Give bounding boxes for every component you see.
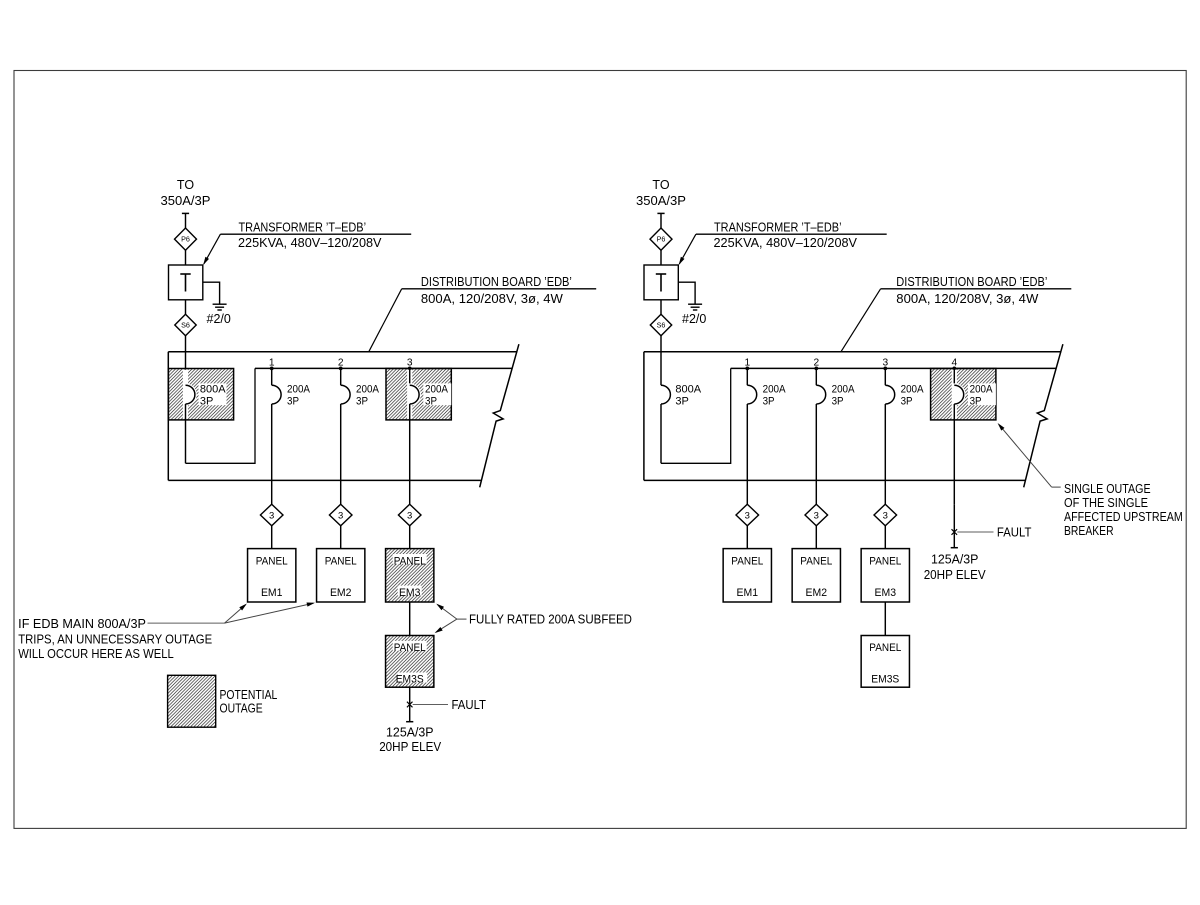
- wire breaker 1 upper (left): [271, 368, 273, 385]
- node 2 tap dot (right): [814, 367, 818, 371]
- arrow tick elevator feeder (left): [406, 721, 413, 723]
- panel EM2 (left): [317, 549, 365, 602]
- node 3 tap dot (left): [408, 367, 412, 371]
- wire breaker 2 upper (left): [340, 368, 342, 385]
- svg-text:PANEL: PANEL: [325, 555, 357, 567]
- switch S6 (right): [650, 314, 671, 335]
- svg-text:125A/3P: 125A/3P: [931, 552, 979, 566]
- svg-text:200A: 200A: [425, 383, 449, 395]
- svg-text:AFFECTED UPSTREAM: AFFECTED UPSTREAM: [1064, 510, 1183, 524]
- fault leader (right): [957, 531, 993, 533]
- svg-text:EM2: EM2: [806, 587, 828, 599]
- transformer T1 box (left): [169, 265, 203, 300]
- potential-outage hatched box main breaker 800A (left): [168, 369, 233, 420]
- wire breaker 4 to elevator feeder (right): [953, 504, 955, 548]
- wire breaker 4 lower (right): [953, 404, 955, 504]
- switch S6 (left): [175, 314, 196, 335]
- meter diamond 3 (right): [736, 504, 759, 526]
- transformer T symbol (left): [180, 273, 190, 275]
- wire breaker 1 upper (right): [746, 368, 748, 385]
- svg-text:EM3S: EM3S: [871, 674, 899, 686]
- svg-text:FAULT: FAULT: [997, 526, 1032, 540]
- svg-text:TO: TO: [652, 178, 669, 192]
- distribution board label leader (right): [881, 288, 1072, 290]
- svg-text:2: 2: [338, 357, 344, 368]
- svg-text:225KVA, 480V–120/208V: 225KVA, 480V–120/208V: [238, 236, 382, 250]
- panel EM3 (left): [386, 549, 434, 602]
- svg-text:200A: 200A: [901, 383, 925, 395]
- svg-text:3P: 3P: [200, 395, 213, 407]
- svg-text:800A, 120/208V, 3ø, 4W: 800A, 120/208V, 3ø, 4W: [421, 292, 563, 306]
- svg-text:OF THE SINGLE: OF THE SINGLE: [1064, 496, 1148, 510]
- bus wire (right): [731, 367, 1056, 369]
- svg-text:200A: 200A: [763, 383, 787, 395]
- wire diamond to panel (right): [884, 526, 886, 549]
- svg-text:4: 4: [951, 357, 957, 368]
- wire breaker 2 lower (right): [815, 404, 817, 504]
- svg-text:IF EDB MAIN 800A/3P: IF EDB MAIN 800A/3P: [18, 617, 146, 631]
- wire EM3 to EM3S (left): [409, 602, 411, 636]
- svg-text:#2/0: #2/0: [207, 312, 231, 326]
- svg-text:S6: S6: [181, 321, 190, 330]
- panel EM1 (right): [723, 549, 771, 602]
- wire breaker 3 lower (right): [884, 404, 886, 504]
- svg-text:3P: 3P: [763, 395, 775, 407]
- svg-text:800A: 800A: [675, 383, 701, 395]
- panel EM3S (left): [386, 636, 434, 688]
- main breaker 800A/3P arc (left): [186, 385, 195, 404]
- wire diamond to panel (right): [815, 526, 817, 549]
- svg-text:OUTAGE: OUTAGE: [220, 702, 263, 716]
- main breaker 800A/3P arc (right): [661, 385, 670, 404]
- wire breaker 2 upper (right): [815, 368, 817, 385]
- svg-text:225KVA, 480V–120/208V: 225KVA, 480V–120/208V: [714, 236, 858, 250]
- svg-text:SINGLE OUTAGE: SINGLE OUTAGE: [1064, 482, 1151, 496]
- svg-text:20HP ELEV: 20HP ELEV: [924, 568, 987, 582]
- ground symbol (right): [688, 303, 702, 305]
- svg-text:PANEL: PANEL: [731, 555, 763, 567]
- continuation arrow to 350A/3P (right): [657, 212, 664, 214]
- wire: main breaker to bus L-path (right): [660, 404, 662, 463]
- svg-text:EM1: EM1: [261, 587, 283, 599]
- potential-outage hatched box breaker 4 (right): [931, 369, 996, 420]
- svg-text:PANEL: PANEL: [869, 555, 901, 567]
- svg-text:PANEL: PANEL: [869, 642, 901, 654]
- svg-text:3: 3: [407, 511, 412, 522]
- wire: incoming feeder (right): [660, 213, 662, 228]
- transformer label leader (left): [220, 233, 411, 235]
- svg-text:350A/3P: 350A/3P: [636, 194, 686, 208]
- svg-text:TRANSFORMER ’T–EDB’: TRANSFORMER ’T–EDB’: [239, 220, 367, 234]
- node 4 tap dot (right): [952, 367, 956, 371]
- svg-text:3: 3: [269, 511, 274, 522]
- ground conductor (right): [678, 282, 695, 304]
- svg-text:200A: 200A: [287, 383, 311, 395]
- svg-text:EM1: EM1: [737, 587, 759, 599]
- svg-text:200A: 200A: [832, 383, 856, 395]
- svg-text:PANEL: PANEL: [394, 555, 426, 567]
- svg-text:P6: P6: [657, 235, 666, 244]
- legend: potential outage hatched box: [168, 675, 216, 727]
- wire diamond to panel (right): [746, 526, 748, 549]
- potential-outage hatched box breaker 3 (left): [386, 369, 451, 420]
- board break line (left): [480, 344, 519, 487]
- svg-text:3: 3: [883, 511, 888, 522]
- continuation arrow to 350A/3P (left): [182, 212, 189, 214]
- fuse/switch P6 (right): [650, 228, 672, 250]
- wire breaker 3 lower (left): [409, 404, 411, 504]
- wire breaker 3 upper (right): [884, 368, 886, 385]
- board break line (right): [1024, 344, 1063, 487]
- breaker 4 200A/3P arc (right): [954, 385, 963, 404]
- breaker 2 200A/3P arc (right): [816, 385, 825, 404]
- svg-text:PANEL: PANEL: [800, 555, 832, 567]
- svg-text:EM2: EM2: [330, 587, 352, 599]
- svg-text:EM3: EM3: [399, 587, 421, 599]
- wire diamond to panel (left): [409, 526, 411, 549]
- wire breaker 2 lower (left): [340, 404, 342, 504]
- wire breaker 3 upper (left): [409, 368, 411, 385]
- svg-text:3: 3: [338, 511, 343, 522]
- breaker 3 200A/3P arc (left): [410, 385, 419, 404]
- svg-text:#2/0: #2/0: [682, 312, 706, 326]
- svg-text:EM3S: EM3S: [396, 674, 424, 686]
- svg-text:3P: 3P: [287, 395, 299, 407]
- panel EM2 (right): [792, 549, 840, 602]
- meter diamond 3 (left): [260, 504, 283, 526]
- breaker 2 200A/3P arc (left): [341, 385, 350, 404]
- svg-text:1: 1: [269, 357, 275, 368]
- svg-text:PANEL: PANEL: [256, 555, 288, 567]
- wire EM3 to EM3S (right): [884, 602, 886, 636]
- panel EM3S (right): [861, 636, 909, 688]
- node 1 tap dot (right): [745, 367, 749, 371]
- note leader line (left): [148, 622, 225, 624]
- meter diamond 3 (right): [805, 504, 828, 526]
- svg-text:TRIPS, AN UNNECESSARY OUTAGE: TRIPS, AN UNNECESSARY OUTAGE: [18, 632, 212, 646]
- meter diamond 3 (left): [398, 504, 421, 526]
- svg-text:PANEL: PANEL: [394, 642, 426, 654]
- svg-text:200A: 200A: [970, 383, 994, 395]
- transformer label leader (right): [696, 233, 887, 235]
- ground symbol (left): [213, 303, 227, 305]
- transformer T1 box (right): [644, 265, 678, 300]
- wire EM3S to elevator feeder (left): [409, 687, 411, 722]
- breaker 3 200A/3P arc (right): [885, 385, 894, 404]
- wire: incoming feeder (left): [185, 213, 187, 228]
- svg-text:FULLY RATED 200A SUBFEED: FULLY RATED 200A SUBFEED: [469, 613, 632, 627]
- svg-text:800A, 120/208V, 3ø, 4W: 800A, 120/208V, 3ø, 4W: [896, 292, 1038, 306]
- svg-text:3P: 3P: [356, 395, 368, 407]
- breaker 1 200A/3P arc (left): [272, 385, 281, 404]
- svg-text:WILL OCCUR HERE AS WELL: WILL OCCUR HERE AS WELL: [18, 647, 174, 661]
- svg-text:DISTRIBUTION BOARD ’EDB’: DISTRIBUTION BOARD ’EDB’: [421, 275, 572, 289]
- svg-text:800A: 800A: [200, 383, 226, 395]
- note: FULLY RATED 200A SUBFEED leader: [457, 618, 467, 620]
- note: SINGLE OUTAGE leader: [1052, 486, 1061, 488]
- svg-text:3: 3: [814, 511, 819, 522]
- fault leader (left): [413, 704, 448, 706]
- panel EM1 (left): [248, 549, 296, 602]
- wire breaker 1 lower (right): [746, 404, 748, 504]
- svg-text:200A: 200A: [356, 383, 380, 395]
- breaker 1 200A/3P arc (right): [747, 385, 756, 404]
- fault X mark (right): [952, 529, 958, 535]
- svg-text:350A/3P: 350A/3P: [161, 194, 211, 208]
- svg-text:DISTRIBUTION BOARD ’EDB’: DISTRIBUTION BOARD ’EDB’: [896, 275, 1047, 289]
- svg-text:EM3: EM3: [875, 587, 897, 599]
- note arrow to panel EM2 (left): [225, 603, 314, 623]
- fuse/switch P6 (left): [175, 228, 197, 250]
- wire diamond to panel (left): [340, 526, 342, 549]
- svg-text:3: 3: [407, 357, 413, 368]
- distribution board outline (left): [167, 352, 169, 481]
- svg-text:3P: 3P: [425, 395, 437, 407]
- svg-text:1: 1: [744, 357, 750, 368]
- meter diamond 3 (right): [874, 504, 897, 526]
- svg-text:BREAKER: BREAKER: [1064, 524, 1114, 538]
- meter diamond 3 (left): [329, 504, 352, 526]
- svg-text:3: 3: [882, 357, 888, 368]
- node 2 tap dot (left): [339, 367, 343, 371]
- svg-text:3: 3: [745, 511, 750, 522]
- svg-text:125A/3P: 125A/3P: [386, 725, 434, 739]
- svg-text:FAULT: FAULT: [452, 698, 487, 712]
- svg-text:3P: 3P: [901, 395, 913, 407]
- wire diamond to panel (left): [271, 526, 273, 549]
- svg-text:2: 2: [813, 357, 819, 368]
- wire: main breaker to bus L-path (left): [185, 404, 187, 463]
- note arrow to panel EM1 (left): [225, 605, 246, 623]
- fault X mark (left): [407, 702, 413, 708]
- panel EM3 (right): [861, 549, 909, 602]
- svg-text:POTENTIAL: POTENTIAL: [220, 688, 278, 702]
- distribution board outline (right): [643, 352, 645, 481]
- transformer T symbol (right): [656, 273, 666, 275]
- wire breaker 4 upper (right): [953, 368, 955, 385]
- svg-text:P6: P6: [181, 235, 190, 244]
- wire breaker 1 lower (left): [271, 404, 273, 504]
- bus wire (left): [255, 367, 512, 369]
- svg-text:20HP ELEV: 20HP ELEV: [379, 740, 442, 754]
- ground conductor (left): [203, 282, 220, 304]
- svg-text:S6: S6: [657, 321, 666, 330]
- svg-text:3P: 3P: [675, 395, 688, 407]
- distribution board label leader (left): [402, 288, 597, 290]
- svg-text:TRANSFORMER ’T–EDB’: TRANSFORMER ’T–EDB’: [714, 220, 842, 234]
- arrow tick elevator feeder (right): [951, 547, 958, 549]
- node 1 tap dot (left): [270, 367, 274, 371]
- svg-text:3P: 3P: [970, 395, 982, 407]
- svg-text:3P: 3P: [832, 395, 844, 407]
- svg-text:TO: TO: [177, 178, 194, 192]
- node 3 tap dot (right): [883, 367, 887, 371]
